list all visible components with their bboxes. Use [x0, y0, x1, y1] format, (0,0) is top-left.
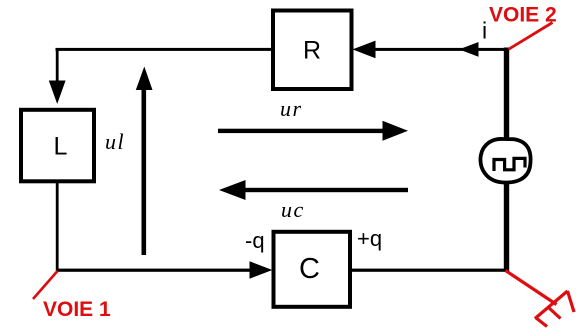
arrowhead into C (pointing right) — [250, 261, 273, 278]
thick generator wire upper segment — [504, 48, 509, 142]
inductor L1 box — [21, 110, 94, 182]
voltage arrow ul (up arrow) — [142, 88, 147, 255]
voltage arrow ur (right arrow) — [218, 129, 385, 133]
arrowhead into R (current direction, pointing left) — [353, 41, 376, 59]
ground (red earth symbol, hand drawn) — [506, 271, 575, 327]
svg-text:ul: ul — [105, 129, 125, 154]
wire bottom horizontal right segment — [352, 269, 508, 272]
svg-text:R: R — [303, 37, 321, 65]
svg-text:L: L — [54, 133, 68, 161]
VOIE 1 probe lead (red) — [33, 271, 58, 299]
wire from L bottom — [56, 181, 59, 271]
svg-text:i: i — [482, 18, 487, 44]
svg-text:-q: -q — [245, 228, 265, 253]
wire left vertical into L — [56, 49, 59, 83]
svg-text:VOIE 1: VOIE 1 — [43, 298, 111, 321]
arrowhead mid top wire (pointing left) — [459, 42, 479, 57]
thick generator wire lower segment — [504, 180, 509, 272]
voltage arrow uc (left arrow) — [243, 188, 408, 192]
svg-text:VOIE 2: VOIE 2 — [489, 4, 557, 27]
svg-text:uc: uc — [281, 197, 305, 222]
generator G1 (signal generator blob) — [480, 139, 530, 183]
resistor R1 box — [273, 11, 352, 90]
VOIE 2 probe lead (red) — [509, 23, 553, 50]
wire top horizontal right segment — [374, 48, 506, 51]
svg-text:ur: ur — [280, 96, 303, 121]
svg-text:+q: +q — [357, 226, 382, 251]
wire top horizontal left segment — [56, 48, 273, 51]
arrowhead into L (pointing down) — [49, 81, 66, 105]
generator square-wave symbol — [494, 158, 525, 171]
capacitor C1 box — [274, 232, 351, 307]
svg-text:C: C — [299, 253, 320, 285]
wire bottom horizontal left segment — [56, 269, 250, 272]
